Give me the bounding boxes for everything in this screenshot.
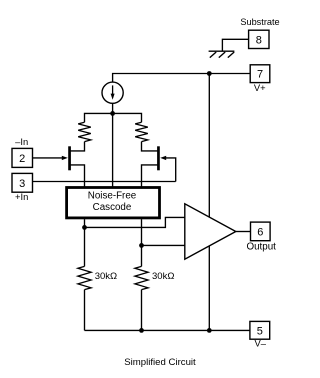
svg-text:Output: Output [246,242,276,253]
pin box 2 -In [12,136,33,167]
wire op-amp output [236,231,251,233]
wire current source to resistor rail [112,103,114,113]
svg-text:V+: V+ [254,82,266,93]
ground symbol [209,51,235,57]
wire right vertical supply rail [208,74,210,331]
junction dot left column [82,225,87,230]
pin box 6 output [246,222,276,253]
junction dot bottom rail at right column [139,328,144,333]
wire drain lead Q1 [71,142,85,151]
svg-text:5: 5 [257,325,263,337]
resistor R4 30k (right bottom) [135,266,148,289]
wire right resistor to bottom rail [141,290,143,331]
junction dot right column [139,243,144,248]
wire left column below cascode [84,219,86,266]
svg-text:–In: –In [15,136,28,147]
wire resistor top rail [85,113,142,122]
wire to op-amp inverting input [142,244,185,246]
resistor left load (top) [78,122,91,141]
svg-text:30kΩ: 30kΩ [152,271,174,282]
wire V+ top rail [113,74,251,83]
svg-text:6: 6 [257,226,263,238]
op-amp U1 [185,204,236,259]
wire left resistor to bottom rail [84,290,86,331]
pin box 7 V+ [250,65,270,93]
transistor Q2 gate arrow [160,156,166,160]
junction dot bottom rail at supply rail [207,328,212,333]
wire +In from pin 3 [32,181,175,183]
wire source lead Q1 [71,165,85,188]
svg-text:V–: V– [254,338,266,349]
resistor R3 30k (left bottom) [78,266,91,289]
svg-text:Noise-Free: Noise-Free [88,191,137,202]
junction dot current source [110,111,115,116]
svg-text:Simplified Circuit: Simplified Circuit [124,357,196,368]
svg-text:2: 2 [19,153,25,165]
svg-text:30kΩ: 30kΩ [95,271,117,282]
wire center column to cascode [112,113,114,187]
wire substrate to ground [222,39,248,50]
pin box 8 substrate [240,17,279,49]
svg-text:Cascode: Cascode [93,202,132,213]
noise-free cascode block [67,188,160,218]
transistor Q2 (right JFET) bar [157,146,160,170]
pin box 3 +In [12,173,33,202]
pin box 5 V- [250,321,270,348]
resistor right load (top) [135,122,148,141]
svg-text:+In: +In [15,191,28,202]
transistor Q1 gate arrow [62,156,68,160]
junction dot V+ rail [207,71,212,76]
transistor Q1 (left JFET) bar [68,146,71,170]
svg-text:8: 8 [256,34,262,46]
wire gate lead Q1 from pin 2 [32,157,62,159]
svg-text:Substrate: Substrate [240,17,279,27]
wire bottom rail [85,329,250,331]
svg-text:3: 3 [19,178,25,190]
svg-text:7: 7 [257,69,263,81]
wire drain lead Q2 [142,142,158,151]
current source I1 [102,82,123,103]
wire to op-amp noninverting input [85,217,185,227]
wire source lead Q2 [142,165,158,188]
wire right column below cascode [141,219,143,266]
wire gate lead Q2 riser [166,158,176,182]
